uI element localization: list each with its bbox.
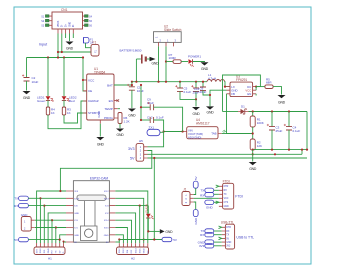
capacitor C2: [22, 58, 39, 84]
connector H1: [34, 247, 65, 261]
svg-text:5V: 5V: [173, 238, 177, 242]
capacitor C12 0.1uF: [141, 115, 164, 131]
svg-text:0.1uF: 0.1uF: [293, 129, 301, 133]
ground GND under CN1: [66, 34, 74, 51]
svg-text:TEMP: TEMP: [104, 107, 112, 111]
svg-text:IO13: IO13: [104, 198, 110, 200]
wire CN1 pin1 down: [57, 34, 59, 58]
svg-text:IO12: IO12: [119, 248, 121, 254]
svg-text:5V: 5V: [226, 238, 229, 240]
CN1 left shield pads: [41, 15, 52, 28]
resistor R3 1K: [62, 101, 71, 116]
wire left row2: [40, 198, 66, 243]
diode D1: [223, 104, 308, 114]
svg-text:TX: TX: [226, 235, 229, 237]
wire R4 to CHRG pin: [48, 101, 87, 129]
wire VIN node down to H5 pin1: [148, 132, 164, 147]
svg-text:68R: 68R: [266, 81, 272, 85]
svg-text:3V3: 3V3: [128, 147, 135, 151]
svg-text:VBUS: VBUS: [58, 20, 60, 27]
svg-text:GND: GND: [128, 114, 136, 118]
svg-text:VCC: VCC: [88, 78, 95, 82]
svg-text:FTDI: FTDI: [223, 179, 230, 183]
net flag VBUS: [84, 38, 94, 45]
wire left row4: [48, 213, 66, 243]
wire left row8: [64, 242, 67, 243]
wire VIN row: [164, 131, 183, 133]
wire VCC to DC: [255, 87, 257, 91]
svg-text:POWER1: POWER1: [188, 55, 201, 59]
header FTDI: [219, 179, 243, 209]
wire J1 pin2 to FTDI VCC: [194, 197, 219, 199]
net flag 5V right: [162, 237, 177, 242]
svg-text:GND: GND: [152, 62, 160, 66]
ground for POWER1: [193, 62, 209, 72]
wire FB divider: [227, 94, 253, 134]
svg-text:RX: RX: [200, 193, 204, 197]
svg-text:RX: RX: [226, 231, 230, 233]
svg-text:10uF: 10uF: [32, 80, 39, 84]
wire main battery rail: [132, 81, 207, 83]
svg-text:GND: GND: [206, 205, 214, 209]
svg-text:5V: 5V: [194, 176, 198, 180]
LED LED1 Green: [37, 96, 54, 104]
svg-text:0.1uF: 0.1uF: [156, 115, 164, 119]
svg-text:RX: RX: [224, 190, 228, 192]
power gnd arrow flag: [160, 229, 173, 234]
wire switch pin1 down to rail: [158, 46, 160, 81]
svg-text:RX: RX: [200, 233, 204, 237]
IC U3 FP6291 boost: [227, 75, 257, 97]
svg-text:12K: 12K: [257, 144, 262, 148]
wire flash gnd row: [148, 230, 160, 232]
wire L1 to LX: [225, 82, 230, 87]
svg-text:ID: ID: [73, 24, 75, 27]
svg-text:CE: CE: [88, 89, 92, 93]
wire BAT to rail: [114, 84, 132, 86]
svg-text:TP4054: TP4054: [94, 71, 105, 75]
wire right row6: [115, 228, 127, 244]
ground under R2: [249, 150, 257, 171]
svg-text:FLASH: FLASH: [144, 204, 148, 212]
connector J2 GND: [21, 213, 56, 231]
net flag RX: [14, 203, 44, 207]
wire TEMP stub: [118, 108, 120, 110]
svg-text:GND: GND: [117, 133, 125, 137]
wire DTR chevron: [219, 226, 222, 229]
wire C5/C6 gnd bus: [180, 91, 196, 99]
svg-text:ADJ(GND): ADJ(GND): [188, 136, 201, 140]
svg-text:Slide Switch: Slide Switch: [164, 28, 182, 32]
wire row B to VCC: [83, 58, 87, 92]
LED POWER1: [181, 55, 201, 67]
node FB junction: [252, 127, 254, 139]
LED FLASH1: [144, 204, 153, 231]
svg-text:GND: GND: [165, 230, 173, 234]
wire right row7: [115, 235, 123, 243]
battery BATTERY18650: [120, 48, 146, 81]
CN1 right shield pads: [83, 15, 93, 28]
svg-text:GND: GND: [69, 22, 71, 27]
wire TAB to FB node: [222, 133, 227, 135]
wire rail4: [148, 157, 308, 159]
CN1 bottom pins: [58, 29, 73, 34]
inductor L1 4.7uH: [207, 73, 225, 82]
svg-text:GND: GND: [74, 235, 79, 237]
net flag GND vertical: [193, 202, 198, 225]
svg-text:Input: Input: [39, 42, 48, 46]
wire DTR chevron: [216, 185, 219, 188]
svg-text:IO14: IO14: [135, 248, 137, 254]
wire 5V drop to ESP area: [153, 158, 155, 240]
connector H2 pin stubs: [119, 243, 148, 247]
wire right row3: [115, 205, 148, 207]
svg-text:IO14: IO14: [104, 220, 110, 222]
connector CN1: [52, 8, 83, 29]
net flag 5V vertical: [193, 176, 198, 194]
svg-text:GND: GND: [224, 206, 229, 208]
svg-text:IO16: IO16: [40, 248, 42, 254]
border frame: [14, 7, 311, 264]
svg-text:IO15: IO15: [139, 248, 141, 254]
resistor R7 100R: [166, 53, 181, 63]
net flag GND to FTDI: [205, 200, 219, 209]
svg-text:TX: TX: [200, 189, 204, 193]
no-connect X on EN pin: [117, 99, 120, 102]
svg-text:H5: H5: [139, 139, 143, 143]
wire flag to fuse: [86, 43, 92, 48]
wire DC top loop: [223, 75, 261, 112]
svg-text:ZX1: ZX1: [149, 125, 155, 129]
ground under C2: [23, 81, 31, 100]
antenna bar graphic: [77, 195, 106, 201]
svg-text:GND: GND: [23, 96, 31, 100]
resistor R4 1K: [46, 101, 55, 116]
module left pin stubs: [66, 191, 73, 242]
node output rail dots: [252, 110, 254, 112]
svg-text:USB to TTL: USB to TTL: [236, 236, 254, 240]
svg-text:GND: GND: [74, 213, 79, 215]
svg-text:Green: Green: [37, 99, 46, 103]
svg-text:GND: GND: [48, 248, 50, 253]
wire EN stub: [255, 94, 257, 96]
svg-text:0.1uF: 0.1uF: [184, 90, 192, 94]
connector H1 pin stubs: [37, 243, 64, 247]
wire left row1: [37, 191, 66, 243]
svg-text:EN: EN: [109, 99, 113, 103]
wire rail3 to output bus: [301, 150, 303, 155]
op-amp U1 TP4054 charger: [83, 67, 118, 124]
svg-text:CN1: CN1: [61, 8, 68, 12]
svg-text:3V3: 3V3: [226, 246, 231, 248]
wire CTS chevron: [216, 201, 219, 204]
svg-text:GND: GND: [207, 110, 215, 114]
capacitor C5 0.1uF: [175, 82, 191, 95]
svg-text:GND: GND: [66, 47, 74, 51]
wire H2 pin1 drop: [118, 240, 120, 244]
svg-text:25uF: 25uF: [276, 129, 283, 133]
module U6 ESP32-CAM: [73, 176, 109, 242]
wire left row6: [56, 228, 66, 244]
wire right row4: [115, 213, 135, 243]
wire CN1 pin3 stub: [65, 34, 67, 39]
wire right row2: [115, 198, 143, 243]
net flag 5V left: [14, 237, 61, 242]
svg-text:RX: RX: [52, 250, 54, 254]
module right pin stubs: [109, 191, 115, 242]
connector H2: [117, 247, 150, 261]
header USB to TTL: [221, 220, 254, 249]
wire left row7: [60, 235, 66, 243]
node row B: [27, 57, 84, 59]
capacitor C6 20uF: [191, 82, 206, 95]
resistor R5: [256, 78, 273, 89]
svg-text:GND: GND: [194, 217, 198, 225]
svg-text:5V: 5V: [14, 238, 18, 242]
svg-text:ESP32-CAM: ESP32-CAM: [90, 176, 108, 180]
resistor R1 100K: [250, 112, 264, 128]
ground for C5/C6: [192, 99, 200, 116]
svg-text:IO12: IO12: [104, 191, 110, 193]
svg-text:DTR: DTR: [226, 227, 231, 229]
svg-text:GND: GND: [278, 101, 286, 105]
net flag GND to USB: [198, 240, 222, 244]
svg-text:TX: TX: [224, 194, 227, 196]
node row A: [58, 51, 91, 53]
net flag TX to FTDI: [200, 188, 218, 192]
svg-text:GND: GND: [249, 167, 257, 171]
wire 5V chevron: [219, 237, 222, 240]
svg-text:G: G: [63, 251, 65, 253]
svg-text:100R: 100R: [169, 56, 177, 60]
svg-text:100K: 100K: [257, 121, 264, 125]
svg-text:GND: GND: [193, 112, 201, 116]
net flag RX to FTDI: [200, 193, 219, 198]
svg-text:Red: Red: [69, 99, 75, 103]
svg-text:1.2K: 1.2K: [124, 120, 130, 124]
wire right row5: [115, 220, 131, 243]
net flag TX to USB: [200, 229, 221, 233]
net flag RX to USB: [200, 233, 222, 237]
svg-text:IO13: IO13: [123, 248, 125, 254]
wire GND pin drop: [210, 90, 227, 106]
svg-text:CTS: CTS: [224, 202, 229, 204]
svg-text:5V: 5V: [130, 157, 135, 161]
wire H5 pin3 5V rail: [148, 153, 303, 155]
svg-text:H1: H1: [48, 257, 52, 261]
ground under U1: [96, 124, 104, 147]
module left pin labels: [74, 191, 80, 244]
net flag 3V3 to USB: [199, 244, 222, 248]
svg-text:GND: GND: [97, 110, 101, 118]
svg-text:D1: D1: [241, 104, 245, 108]
wire VCC stub: [83, 79, 87, 81]
wire row B to LED2: [63, 58, 65, 97]
capacitor C7 20uF boost input: [192, 81, 206, 95]
svg-text:CHRG#: CHRG#: [88, 99, 99, 103]
svg-text:AMS1117: AMS1117: [196, 122, 210, 126]
svg-text:BATTERY18650: BATTERY18650: [120, 48, 142, 52]
wire right row1: [115, 191, 147, 243]
resistor R2 12K: [250, 139, 262, 150]
svg-text:D-: D-: [62, 24, 64, 27]
module right pin labels: [104, 191, 110, 244]
svg-text:H2: H2: [131, 257, 135, 261]
svg-text:PROG: PROG: [104, 116, 114, 120]
svg-text:FB: FB: [231, 92, 235, 96]
wire battery rail to caps: [140, 85, 142, 120]
ground for U3: [206, 106, 214, 114]
wire CN1 pin2 down: [61, 34, 63, 53]
svg-text:VCC: VCC: [224, 198, 229, 200]
capacitor C9 10uF: [141, 98, 183, 132]
svg-text:FTDI: FTDI: [235, 195, 243, 199]
module stem graphic: [85, 201, 96, 226]
resistor R6 1.2K on PROG: [118, 113, 130, 124]
wire left row5: [52, 220, 66, 243]
connector J1 power select: [182, 188, 194, 206]
svg-text:1K: 1K: [51, 111, 55, 115]
svg-text:1K: 1K: [67, 111, 71, 115]
svg-text:20uF: 20uF: [192, 90, 199, 94]
svg-text:BAT: BAT: [107, 83, 113, 87]
wire left row3: [44, 206, 66, 243]
wire row B to LED1: [47, 58, 49, 97]
svg-text:IO15: IO15: [104, 228, 110, 230]
net flag ZX1: [147, 125, 164, 135]
svg-text:F1: F1: [93, 41, 97, 45]
svg-text:DTR: DTR: [224, 186, 229, 188]
svg-text:GND: GND: [143, 248, 145, 253]
IC U4 AMS1117: [183, 118, 222, 140]
svg-text:IO16: IO16: [74, 198, 80, 200]
wire CN1 pin5 stub: [72, 34, 74, 39]
svg-text:3V3: 3V3: [199, 244, 205, 248]
ground under R6: [116, 124, 124, 138]
wire right row8: [115, 241, 119, 243]
net flag TX: [14, 196, 40, 200]
wire output bottom bus: [253, 112, 307, 150]
svg-text:GND: GND: [226, 242, 231, 244]
LED LED2 Red: [62, 96, 77, 104]
svg-text:FP6291: FP6291: [236, 78, 247, 82]
capacitor C4 0.1uF: [284, 112, 301, 150]
switch U2 slide switch: [154, 24, 182, 46]
wire switch pin2 down through 100R row to rail: [165, 46, 167, 81]
ground for R5: [273, 87, 286, 105]
svg-text:TX: TX: [14, 197, 18, 201]
wire C7 to gnd: [203, 90, 210, 95]
svg-text:10uF: 10uF: [137, 89, 144, 93]
svg-text:EN: EN: [247, 92, 251, 96]
fuse F1: [91, 41, 99, 57]
camera square graphic: [81, 226, 98, 241]
capacitor C3 25uF: [267, 112, 283, 150]
svg-text:GND: GND: [97, 143, 105, 147]
connector H5: [128, 139, 148, 161]
svg-text:GND: GND: [104, 235, 109, 237]
svg-text:GND: GND: [201, 67, 209, 71]
capacitor C1 10uF at BAT: [127, 82, 144, 93]
wire R3 to STDBY pin: [64, 113, 87, 123]
wire H5 pin2 to ESP rail: [60, 151, 151, 192]
ground under C1: [128, 90, 136, 117]
power gnd arrow for battery: [147, 57, 159, 66]
wire 5V row over H2: [119, 239, 162, 241]
svg-text:TAB: TAB: [211, 132, 216, 136]
svg-text:RX: RX: [14, 204, 18, 208]
